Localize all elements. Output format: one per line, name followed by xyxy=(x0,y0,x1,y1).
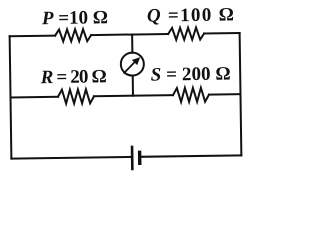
svg-text:S = 200 Ω: S = 200 Ω xyxy=(151,63,231,85)
resistor R1 (R = 20 ohm) zigzag xyxy=(58,89,94,104)
battery B1 long plate (positive) xyxy=(131,147,134,169)
wire: bottom-left segment to battery xyxy=(11,157,132,159)
wire: top middle segment between P and Q xyxy=(91,34,168,35)
resistor Q1 (Q = 100 ohm) zigzag xyxy=(168,27,204,40)
wire: top-left segment to resistor P xyxy=(10,35,55,38)
svg-text:P =10 Ω: P =10 Ω xyxy=(41,7,108,29)
resistor P1 (P = 10 ohm) zigzag xyxy=(55,29,91,42)
svg-text:Q =100 Ω: Q =100 Ω xyxy=(147,4,234,26)
svg-text:R = 20 Ω: R = 20 Ω xyxy=(40,66,107,88)
node: top junction to galvanometer xyxy=(131,34,133,52)
wire: middle-right segment after S xyxy=(209,93,240,95)
wire: right vertical side xyxy=(240,33,242,155)
wire: middle-left segment to resistor R xyxy=(11,96,58,99)
battery B1 short plate (negative) xyxy=(138,152,142,163)
galvanometer needle arrow xyxy=(124,60,136,72)
wire: bottom-right segment from battery xyxy=(140,155,242,156)
resistor S1 (S = 200 ohm) zigzag xyxy=(173,88,209,103)
galvanometer G1 circle xyxy=(121,52,144,75)
wire: top-right segment after Q xyxy=(204,32,239,35)
wire: left vertical side xyxy=(10,36,12,158)
wire: galvanometer to middle wire xyxy=(132,75,134,95)
wire: middle segment between R and S xyxy=(94,95,173,96)
